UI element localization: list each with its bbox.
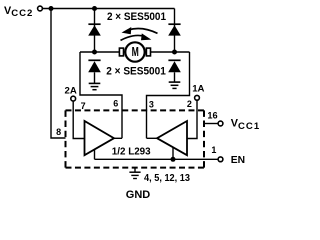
- diode D1 (top left): [88, 24, 101, 35]
- svg-text:VCC2: VCC2: [4, 5, 33, 19]
- wire enable net (EN): [95, 147, 219, 159]
- svg-text:6: 6: [113, 99, 118, 109]
- wire right diode column drop: [174, 9, 176, 53]
- wire left output route (motor rail to pin 6): [80, 52, 122, 138]
- svg-text:2 × SES5001: 2 × SES5001: [106, 66, 166, 78]
- terminal VCC1: [218, 121, 223, 126]
- motor M: [119, 42, 150, 61]
- svg-text:1: 1: [211, 145, 216, 155]
- driver A2 (right half-H, mirrored): [147, 121, 188, 155]
- wire 1A to driver input (pin 2): [187, 100, 197, 138]
- wire VCC2 to pin 8: [51, 9, 66, 139]
- diode D2 (top right): [168, 24, 181, 35]
- wire IC ground stem: [134, 168, 136, 173]
- terminal 1A: [195, 95, 200, 100]
- ground (bottom right diode): [169, 82, 181, 88]
- junction left diode column / motor rail: [92, 50, 97, 55]
- svg-text:8: 8: [56, 127, 61, 137]
- terminal VCC2: [38, 6, 43, 11]
- svg-text:4, 5, 12, 13: 4, 5, 12, 13: [144, 173, 190, 184]
- svg-text:2: 2: [187, 99, 192, 109]
- junction VCC2/top rail: [49, 6, 54, 11]
- wire 2A to driver input (pin 7): [73, 101, 84, 139]
- wire VCC1 (pin 16): [204, 123, 218, 125]
- IC U1 L293 dashed outline: [66, 110, 205, 167]
- driver A1 (left half-H, 1/2 L293): [85, 121, 123, 155]
- wire left diode column (top): [94, 9, 96, 53]
- svg-text:1/2 L293: 1/2 L293: [112, 147, 151, 158]
- svg-text:1A: 1A: [192, 84, 204, 95]
- diode D3 (bottom left): [88, 60, 101, 83]
- svg-text:3: 3: [149, 100, 154, 110]
- svg-text:EN: EN: [231, 155, 245, 166]
- svg-text:VCC1: VCC1: [231, 118, 260, 132]
- ground (bottom left diode): [89, 83, 101, 89]
- svg-text:GND: GND: [126, 189, 151, 200]
- terminal EN (pin 1): [218, 157, 223, 162]
- svg-text:2A: 2A: [65, 85, 77, 96]
- svg-text:2 × SES5001: 2 × SES5001: [107, 11, 166, 23]
- diode D4 (bottom right): [168, 60, 181, 82]
- terminal 2A: [71, 96, 76, 101]
- wire top rail (VCC2 net): [42, 8, 174, 10]
- svg-text:M: M: [132, 44, 139, 59]
- junction enable line / right driver: [171, 157, 176, 162]
- ground (IC pins): [129, 172, 140, 178]
- rotation arrows (bidirectional): [121, 27, 158, 40]
- wire motor rail: [80, 51, 190, 53]
- junction top of left diode column: [92, 6, 97, 11]
- svg-text:16: 16: [207, 111, 217, 121]
- junction right diode column / motor rail: [172, 50, 177, 55]
- wire right output route (motor rail to pin 3): [147, 52, 190, 138]
